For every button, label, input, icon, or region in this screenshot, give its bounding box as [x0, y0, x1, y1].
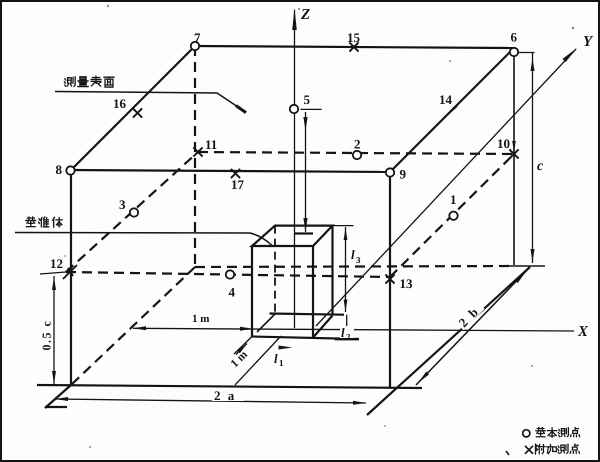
basic measurement point 2 (circle): [353, 151, 361, 159]
ground edge below bottom-front-left corner: [45, 385, 71, 408]
dimension 1 m horizontal: left arrowhead: [133, 326, 146, 330]
basic measurement point 9 (circle): [386, 168, 394, 176]
mid-height plane: left edge 12-11 (dashed): [66, 152, 198, 272]
leader hook end: [236, 106, 246, 113]
svg-text:2: 2: [354, 137, 361, 152]
basic measurement point 3 (circle): [130, 208, 138, 216]
dimension 0.5c: down arrowhead: [52, 371, 56, 384]
dimension 2a: right arrowhead: [353, 401, 366, 405]
slanted 1m: dimension line segment: [236, 344, 247, 355]
Z axis vertical line: [294, 10, 296, 328]
measurement surface box: bottom-front edge: [37, 385, 422, 388]
reference body: bottom-left hidden edge tick: [257, 314, 275, 332]
dimension 2b: up-right arrowhead: [515, 272, 526, 284]
additional measurement point 13 (X mark): [385, 274, 394, 283]
slanted projection line from reference body to ground edge: [235, 336, 281, 385]
measurement surface box: bottom-left edge (hidden, dashed): [71, 267, 195, 385]
dimension l2: bottom tick: [335, 339, 359, 341]
measurement surface box: bottom-right edge (2b edge): [367, 267, 530, 415]
measurement surface box: top-back edge (7 to 6): [195, 46, 514, 48]
additional measurement point 15 (X mark): [349, 42, 358, 51]
Z axis arrowhead: [292, 8, 297, 30]
dimension 2b: slanted dimension line: [416, 267, 530, 385]
svg-text:X: X: [577, 324, 589, 340]
additional measurement point 12 (slash mark): [63, 265, 77, 279]
mid-height plane: back edge 11-10 (dashed): [198, 152, 514, 154]
probe companion line with down arrows: [305, 112, 307, 232]
additional measurement point 10 (X mark): [509, 149, 518, 158]
additional measurement point 16 (X mark): [133, 108, 142, 117]
label 测量表面 (measurement surface): [64, 77, 75, 86]
dimension l3: down arrowhead: [344, 300, 348, 312]
svg-text:c: c: [537, 159, 544, 174]
reference body: front-left vertical edge: [251, 246, 253, 337]
svg-text:2 a: 2 a: [214, 388, 236, 403]
scan speckle dot: [506, 451, 509, 455]
svg-text:13: 13: [400, 276, 414, 291]
measurement surface box: bottom-back edge (hidden, dashed): [195, 266, 512, 267]
additional measurement point 11 (X mark): [193, 147, 202, 156]
svg-text:1: 1: [450, 192, 457, 207]
probe lower down-arrowhead: [303, 218, 307, 232]
Y axis arrowhead: [563, 48, 578, 62]
reference body: top face: [252, 226, 333, 246]
basic measurement point 4 (circle): [226, 270, 234, 278]
svg-text:l: l: [351, 247, 355, 262]
basic measurement point 8 (circle): [66, 166, 74, 174]
svg-text:0.5 c: 0.5 c: [40, 320, 54, 351]
dimension c: vertical line at right: [532, 53, 534, 263]
dimension c: up arrowhead: [531, 58, 535, 71]
svg-text:4: 4: [229, 285, 236, 300]
reference body: back-right vertical edge: [331, 226, 333, 316]
scan speckle dots: [107, 5, 109, 7]
slanted 1m: corner tick: [234, 337, 252, 355]
dimension 0.5c: top tick to corner 12: [40, 272, 66, 274]
tick right of point 5: [301, 108, 322, 110]
measurement surface box: top-left edge (8 to 7): [71, 46, 195, 170]
dimension 2a: line: [37, 385, 366, 403]
svg-text:1 m: 1 m: [192, 313, 209, 325]
dimension 0.5c: up arrowhead: [52, 277, 56, 290]
dimension 2a: left arrowhead: [55, 397, 68, 401]
dimension l2: vertical line: [346, 315, 348, 340]
reference body: bottom-back edge / l3-l2 middle tick: [270, 314, 345, 315]
dimension c: top tick: [516, 52, 535, 54]
svg-text:14: 14: [439, 92, 453, 107]
sensor T-bar on reference body top: [294, 232, 313, 234]
measurement surface box: top-front edge (8 to 9): [71, 170, 390, 172]
legend: additional point symbol (X): [525, 446, 533, 454]
svg-text:11: 11: [205, 137, 217, 152]
basic measurement point 6 (circle): [510, 48, 518, 56]
tick for point 14 on top-right edge: [448, 106, 457, 114]
label 基准体 (reference body): [26, 217, 36, 227]
Y axis diagonal line: [316, 49, 576, 326]
svg-text:7: 7: [194, 30, 201, 45]
slanted 1m: up-right arrowhead: [237, 344, 247, 354]
dimension 2b: down-left arrowhead: [418, 372, 429, 384]
svg-text:1: 1: [279, 358, 284, 368]
mid-height plane: front edge 12-13 (dashed): [66, 272, 390, 277]
svg-text:6: 6: [511, 30, 518, 45]
basic measurement point 7 (circle): [191, 42, 199, 50]
bottom-back edge solid extension tick at right: [507, 265, 545, 267]
svg-text:Z: Z: [300, 7, 310, 23]
dimension l3: up arrowhead: [344, 228, 348, 240]
svg-text:5: 5: [304, 92, 311, 107]
dimension l1: right arrowhead: [279, 346, 293, 350]
measurement surface box: back-left vertical edge (hidden, dashed): [194, 46, 196, 267]
dimension 1 m horizontal: right arrowhead: [240, 327, 253, 331]
svg-text:12: 12: [50, 256, 63, 271]
svg-text:8: 8: [56, 162, 63, 177]
svg-text:15: 15: [347, 30, 361, 45]
svg-text:l: l: [274, 351, 278, 366]
dimension c: down arrowhead: [531, 249, 535, 262]
dimension 2a: label: [212, 388, 244, 401]
dimension l3: top tick: [333, 225, 354, 227]
svg-text:9: 9: [400, 167, 407, 182]
measurement surface box: top-right edge (9 to 6): [390, 48, 514, 172]
reference body: bottom-front edge: [252, 337, 359, 340]
legend: 基本测点 text: [536, 427, 545, 436]
reference body: bottom-right edge: [313, 316, 333, 338]
ground front-left tick: [45, 406, 67, 408]
svg-text:3: 3: [356, 255, 361, 265]
dimension l3: vertical line: [345, 227, 347, 312]
leader line of 测量表面: [55, 92, 244, 112]
svg-text:2: 2: [346, 332, 351, 342]
measurement surface box: front-left vertical edge: [70, 170, 72, 385]
svg-text:16: 16: [113, 96, 127, 111]
svg-text:l: l: [341, 325, 345, 340]
svg-text:3: 3: [119, 197, 126, 212]
additional measurement point 17 (X mark): [231, 169, 240, 178]
leader line of 基准体: [15, 233, 272, 246]
dimension 0.5c: vertical line at left: [53, 276, 55, 385]
probe upper down-arrowhead: [303, 117, 307, 131]
svg-text:10: 10: [497, 136, 510, 151]
mid-height plane: right edge 13-10 (dashed): [390, 154, 514, 277]
svg-text:17: 17: [231, 177, 245, 192]
dimension l2: label: [340, 325, 354, 342]
measurement surface box: back-right vertical edge (6 down to ground): [513, 56, 515, 265]
legend: basic point symbol (circle): [523, 430, 530, 437]
reference body: back-left vertical edge (hidden, dashed): [274, 226, 276, 314]
basic measurement point 1 (circle): [449, 212, 457, 220]
measurement surface box: front-right vertical edge: [389, 172, 391, 388]
reference body: front-right vertical edge: [312, 246, 314, 338]
basic measurement point 5 (circle): [290, 105, 298, 113]
arrow on back-right vertical pointing down to point 10: [512, 141, 516, 152]
legend: 附加测点 text: [535, 444, 545, 454]
dimension 2b: label (rotated): [454, 300, 486, 332]
X axis horizontal line (also 1 m dimension line): [133, 328, 574, 331]
